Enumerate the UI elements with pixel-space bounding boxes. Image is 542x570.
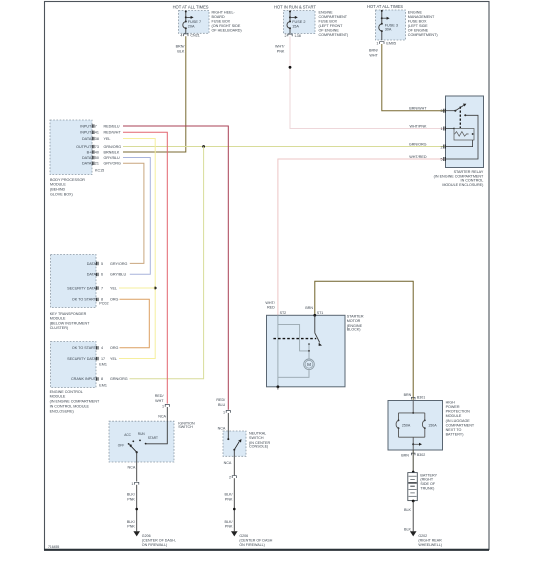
svg-text:WHEELWELL): WHEELWELL): [418, 543, 442, 547]
svg-text:INPUT: INPUT: [80, 125, 92, 129]
svg-text:250A: 250A: [402, 423, 411, 427]
wire GRN/ORG branch to ECM crank input pin 8: [130, 147, 204, 379]
BPM pin 41 INPUT: [80, 131, 121, 135]
svg-text:WHT/PNK: WHT/PNK: [409, 124, 427, 128]
svg-text:COMPARTMENT): COMPARTMENT): [319, 33, 349, 37]
fuse F2 15A: [287, 11, 305, 34]
svg-text:RED: RED: [267, 306, 275, 310]
svg-text:1: 1: [441, 127, 443, 131]
wire WHT/PNK from F2 to relay pin 1: [275, 36, 446, 128]
svg-text:BRN: BRN: [404, 393, 412, 397]
svg-text:WHT/: WHT/: [275, 45, 285, 49]
svg-text:HOT AT ALL TIMES: HOT AT ALL TIMES: [173, 4, 209, 9]
wire BLK from battery to G202: [404, 501, 413, 531]
svg-text:30A: 30A: [385, 27, 392, 31]
svg-text:B302: B302: [417, 453, 425, 457]
wire RED/WHT from BPM pin 41 to ignition switch: [123, 132, 167, 403]
svg-text:73: 73: [95, 145, 99, 149]
svg-text:YEL: YEL: [110, 286, 117, 290]
neutral switch: [223, 431, 270, 456]
ignition bottom connector pin 1: [131, 482, 138, 486]
svg-text:5: 5: [101, 262, 103, 266]
wire GRY/ORG from BPM pin 21 to KT pin 5: [123, 163, 144, 263]
svg-text:GRN/ORG: GRN/ORG: [110, 377, 128, 381]
svg-text:BOARD: BOARD: [212, 15, 225, 19]
BPM pin 38 DATA: [82, 137, 110, 141]
svg-text:IN CONTROL MODULE: IN CONTROL MODULE: [50, 405, 90, 409]
motor M symbol: [304, 359, 315, 370]
svg-text:PNK: PNK: [277, 49, 285, 53]
wire YEL from BPM pin 38 to ECM pin 17: [119, 139, 155, 359]
svg-text:(IN ENGINE COMPARTMENT: (IN ENGINE COMPARTMENT: [50, 400, 100, 404]
svg-text:NCA: NCA: [218, 426, 226, 430]
key transponder module: [50, 255, 109, 331]
relay pin 2: [409, 142, 446, 149]
svg-text:WHT: WHT: [155, 399, 164, 403]
svg-text:HIGH: HIGH: [446, 400, 456, 404]
wire BLK/PNK ignition to G206: [127, 485, 137, 532]
svg-text:BLOCK): BLOCK): [347, 328, 361, 332]
neutral connector pin 1: [223, 410, 230, 414]
svg-text:INPUT: INPUT: [80, 131, 92, 135]
wire BLK/PNK neutral to G206: [225, 478, 235, 531]
svg-text:17: 17: [101, 357, 105, 361]
BPM pin 21 DATA: [82, 162, 121, 166]
svg-text:(RIGHT: (RIGHT: [420, 478, 433, 482]
svg-text:MODULE: MODULE: [50, 183, 66, 187]
relay switched output path to pin 5: [446, 114, 479, 159]
svg-text:CLUSTER): CLUSTER): [50, 326, 68, 330]
svg-text:BODY PROCESSOR: BODY PROCESSOR: [50, 178, 85, 182]
svg-text:15A: 15A: [292, 25, 299, 29]
battery negative terminal dot: [412, 500, 415, 503]
ignition switch: [109, 421, 195, 462]
motor return path: [278, 370, 309, 378]
svg-text:COMPARTMENT: COMPARTMENT: [319, 15, 348, 19]
svg-text:START: START: [148, 436, 158, 440]
wire NCA into neutral switch: [218, 413, 230, 440]
BPM pin 50 DATA: [82, 156, 120, 160]
svg-text:(LEFT SIDE: (LEFT SIDE: [408, 24, 428, 28]
engine control module: [50, 342, 107, 414]
svg-text:ON FIREWALL): ON FIREWALL): [142, 543, 167, 547]
svg-text:MODULE: MODULE: [50, 395, 66, 399]
svg-text:KC15: KC15: [95, 169, 104, 173]
wire GRN/ORG from BPM pin 73 to relay pin 2: [123, 146, 446, 148]
svg-text:POWER: POWER: [446, 405, 460, 409]
fuse F7 20A: [183, 11, 201, 34]
svg-text:ENCLOSURE): ENCLOSURE): [50, 409, 74, 413]
svg-text:GRN/ORG: GRN/ORG: [104, 145, 122, 149]
svg-text:FUSE 7: FUSE 7: [188, 20, 201, 24]
svg-text:RIGHT HEEL-: RIGHT HEEL-: [212, 11, 236, 15]
svg-text:RED/WHT: RED/WHT: [104, 131, 122, 135]
svg-text:DATA: DATA: [87, 273, 97, 277]
svg-text:PROTECTION: PROTECTION: [446, 410, 471, 414]
svg-text:(CENTER OF DASH: (CENTER OF DASH: [239, 539, 272, 543]
svg-text:38: 38: [95, 137, 99, 141]
svg-text:2: 2: [229, 476, 231, 480]
svg-text:FUSE BOX: FUSE BOX: [212, 20, 231, 24]
svg-text:YEL: YEL: [110, 357, 117, 361]
relay pin 5: [409, 155, 445, 162]
svg-text:GRY/BLU: GRY/BLU: [104, 156, 120, 160]
svg-text:PNK: PNK: [127, 497, 135, 501]
svg-text:M: M: [307, 362, 311, 367]
svg-text:CONSOLE): CONSOLE): [249, 445, 268, 449]
splice on WHT/PNK: [289, 66, 292, 69]
KT pin 6 DATA: [87, 273, 127, 277]
svg-text:FUSE BOX: FUSE BOX: [319, 20, 338, 24]
svg-text:OF HEELBOARD): OF HEELBOARD): [212, 29, 242, 33]
svg-text:G206: G206: [239, 534, 248, 538]
HPP internal output join: [399, 437, 425, 450]
svg-text:MODULE ENCLOSURE): MODULE ENCLOSURE): [442, 183, 483, 187]
svg-text:21: 21: [95, 162, 99, 166]
wire WHT/RED from relay pin 5 to starter ST2: [265, 159, 445, 315]
svg-text:HOT AT ALL TIMES: HOT AT ALL TIMES: [367, 4, 403, 9]
svg-text:TRUNK): TRUNK): [420, 487, 434, 491]
svg-text:MOTOR: MOTOR: [347, 319, 361, 323]
svg-text:BLU: BLU: [218, 403, 226, 407]
svg-text:BLK/: BLK/: [225, 520, 234, 524]
svg-text:2: 2: [285, 34, 287, 38]
svg-text:G202: G202: [418, 534, 427, 538]
neutral bottom connector pin 2: [229, 476, 236, 480]
svg-text:BLK: BLK: [177, 49, 185, 53]
svg-text:4: 4: [180, 34, 182, 38]
svg-text:8: 8: [101, 298, 103, 302]
svg-text:1: 1: [162, 404, 164, 408]
KT pin 7 SECURITY DATA: [67, 286, 117, 290]
svg-text:GRY/ORG: GRY/ORG: [104, 162, 121, 166]
starter motor winding connection: [308, 343, 310, 359]
svg-text:KEY TRANSPONDER: KEY TRANSPONDER: [50, 312, 87, 316]
svg-text:BRN/WHT: BRN/WHT: [409, 107, 427, 111]
svg-text:SIDE OF: SIDE OF: [420, 482, 435, 486]
svg-text:SECURITY DATA: SECURITY DATA: [67, 357, 96, 361]
svg-text:FUSE BOX: FUSE BOX: [408, 19, 427, 23]
ECM pin 8 CRANK INPUT: [71, 377, 128, 381]
connector L38 pin 2: [285, 34, 301, 38]
junction dot GRN/ORG branch: [202, 145, 205, 148]
svg-text:CRANK INPUT: CRANK INPUT: [71, 377, 97, 381]
svg-text:CN21: CN21: [190, 34, 199, 38]
svg-text:DATA: DATA: [87, 262, 97, 266]
battery positive terminal dot: [412, 471, 415, 474]
starter switch contact: [315, 315, 322, 346]
starter motor: [267, 311, 364, 387]
BPM pin 40 B+: [87, 150, 120, 154]
svg-text:PNK: PNK: [225, 525, 233, 529]
svg-text:MODULE: MODULE: [50, 317, 66, 321]
relay pin 1: [409, 124, 445, 131]
svg-text:YEL: YEL: [104, 137, 111, 141]
svg-text:OK TO START: OK TO START: [72, 346, 97, 350]
svg-text:RUN: RUN: [138, 432, 146, 436]
svg-text:BRN: BRN: [305, 306, 313, 310]
svg-text:BATTERY: BATTERY: [420, 473, 437, 477]
relay coil return to pin 2: [446, 140, 473, 147]
svg-text:(LEFT FRONT: (LEFT FRONT: [319, 24, 344, 28]
relay armature dashed link: [459, 107, 461, 129]
wire BRN/BLK from F7 to BPM pin 40: [123, 36, 186, 152]
high power protection module top connector B301: [404, 393, 426, 399]
svg-text:COMPARTMENT): COMPARTMENT): [408, 33, 438, 37]
splice on neutral BLK/PNK: [233, 508, 236, 511]
ignition connector pin 1: [162, 404, 169, 408]
wire YEL branch to KT pin 7: [119, 287, 155, 289]
wire NCA into ignition switch: [146, 407, 168, 444]
svg-text:FUSE 2: FUSE 2: [292, 20, 305, 24]
svg-text:DATA: DATA: [82, 162, 92, 166]
svg-text:OFF: OFF: [118, 444, 124, 448]
svg-text:OUTPUT: OUTPUT: [76, 145, 92, 149]
fuse F3 30A: [379, 10, 398, 40]
svg-text:7: 7: [95, 125, 97, 129]
ignition switch feed label RED/WHT: [155, 394, 165, 403]
svg-text:BLK/: BLK/: [127, 493, 136, 497]
svg-text:GRN/ORG: GRN/ORG: [409, 142, 427, 146]
svg-text:ORG: ORG: [110, 346, 119, 350]
svg-text:1: 1: [223, 410, 225, 414]
svg-text:7: 7: [101, 286, 103, 290]
svg-text:PC02: PC02: [99, 302, 108, 306]
ignition rotor arm: [129, 444, 138, 453]
svg-text:BRN: BRN: [401, 453, 409, 457]
KT pin 5 DATA: [87, 262, 128, 266]
ground G206 (neutral): [231, 531, 273, 547]
svg-text:2: 2: [441, 145, 443, 149]
svg-text:BLK/: BLK/: [127, 520, 136, 524]
high power protection module: [388, 400, 475, 450]
svg-text:BATTERY): BATTERY): [446, 433, 464, 437]
wire GRY/BLU from BPM pin 50 to KT pin 6: [123, 158, 150, 275]
svg-text:BRN/: BRN/: [176, 45, 186, 49]
wire from neutral switch to ground: [224, 450, 235, 476]
svg-text:8: 8: [101, 377, 103, 381]
fuse 250A: [396, 413, 411, 437]
svg-text:EM1: EM1: [99, 362, 107, 366]
ignition contacts: [118, 432, 158, 447]
svg-text:1: 1: [131, 482, 133, 486]
svg-text:OF ENGINE: OF ENGINE: [408, 28, 429, 32]
BPM pin 7 INPUT: [80, 124, 120, 128]
svg-text:GRY/ORG: GRY/ORG: [110, 262, 127, 266]
svg-text:ENGINE: ENGINE: [408, 10, 423, 14]
svg-text:ST2: ST2: [280, 311, 287, 315]
ground G202: [410, 531, 442, 547]
svg-text:ORG: ORG: [110, 298, 119, 302]
svg-text:DATA: DATA: [82, 156, 92, 160]
starter relay: [434, 96, 484, 187]
fuse box F3 (engine management fuse box): [367, 4, 438, 40]
starter ST1 junction dot: [313, 314, 316, 317]
wire BRN/WHT from F3 to relay pin 3: [369, 44, 446, 111]
connector EM05 pin 1: [376, 41, 396, 45]
svg-text:1: 1: [376, 41, 378, 45]
svg-text:GRY/BLU: GRY/BLU: [110, 273, 126, 277]
neutral switch arm: [233, 439, 241, 451]
svg-text:NCA: NCA: [224, 461, 232, 465]
svg-text:B+: B+: [87, 150, 92, 154]
svg-text:NCA: NCA: [128, 465, 136, 469]
svg-text:6: 6: [101, 273, 103, 277]
svg-text:B301: B301: [417, 396, 425, 400]
BPM pin 73 OUTPUT: [76, 145, 121, 149]
svg-text:RED/: RED/: [155, 394, 165, 398]
svg-text:EM1: EM1: [99, 384, 107, 388]
relay pin 3: [409, 107, 445, 114]
fuse box F7 (right heelboard fuse box): [173, 4, 242, 33]
wire BRN from starter ST1 to high power protection module: [305, 281, 413, 400]
svg-text:PNK: PNK: [127, 525, 135, 529]
neutral switch feed label RED/BLU: [216, 398, 226, 407]
relay coil: [446, 128, 475, 140]
ground G206 (ignition): [133, 531, 175, 547]
svg-text:MODULE: MODULE: [446, 414, 462, 418]
svg-text:NCA: NCA: [158, 415, 166, 419]
svg-text:3: 3: [441, 109, 443, 113]
svg-text:COMPARTMENT: COMPARTMENT: [446, 423, 475, 427]
svg-text:BLK: BLK: [404, 527, 412, 531]
ECM pin 17 SECURITY DATA: [67, 357, 117, 361]
battery: [408, 473, 438, 501]
svg-text:5: 5: [441, 158, 443, 162]
svg-text:ENGINE: ENGINE: [319, 11, 334, 15]
svg-text:ST1: ST1: [317, 311, 324, 315]
svg-text:BRN/BLK: BRN/BLK: [104, 150, 120, 154]
border frame: [44, 2, 489, 550]
svg-text:WHT/RED: WHT/RED: [409, 155, 427, 159]
svg-text:ENGINE CONTROL: ENGINE CONTROL: [50, 390, 83, 394]
svg-text:DATA: DATA: [82, 137, 92, 141]
svg-text:ON FIREWALL): ON FIREWALL): [239, 543, 264, 547]
svg-text:20A: 20A: [188, 25, 195, 29]
svg-text:SECURITY DATA: SECURITY DATA: [67, 286, 96, 290]
svg-text:ACC: ACC: [124, 433, 131, 437]
svg-text:RED/: RED/: [216, 398, 226, 402]
svg-text:OF ENGINE: OF ENGINE: [319, 29, 340, 33]
svg-text:40: 40: [95, 150, 99, 154]
connector CN21 pin 4: [180, 34, 200, 38]
starter solenoid feed path: [278, 315, 309, 387]
svg-text:L38: L38: [295, 34, 301, 38]
svg-text:NEXT TO: NEXT TO: [446, 428, 462, 432]
svg-text:(CENTER OF DASH,: (CENTER OF DASH,: [142, 539, 176, 543]
svg-text:PNK: PNK: [225, 497, 233, 501]
svg-text:HOT IN RUN & START: HOT IN RUN & START: [274, 4, 316, 9]
starter solenoid dashed link: [273, 338, 316, 340]
svg-text:BRN/: BRN/: [369, 49, 379, 53]
relay switch contact: [446, 104, 467, 112]
svg-text:(BEHIND: (BEHIND: [50, 188, 65, 192]
svg-text:41: 41: [95, 131, 99, 135]
svg-text:50: 50: [95, 156, 99, 160]
svg-text:MANAGEMENT: MANAGEMENT: [408, 15, 435, 19]
svg-text:(RIGHT REAR: (RIGHT REAR: [418, 539, 442, 543]
wire ORG from KT pin 8 to ECM pin 4: [120, 299, 150, 347]
wire RED/BLU from BPM pin 7 to neutral switch: [123, 126, 228, 410]
wire from ignition switch to ground: [128, 452, 137, 481]
svg-text:SWITCH: SWITCH: [249, 436, 264, 440]
svg-text:(IN LUGGAGE: (IN LUGGAGE: [446, 419, 471, 423]
HPP internal feed split: [399, 401, 425, 414]
svg-text:WHT/: WHT/: [265, 301, 275, 305]
body processor module: [50, 120, 104, 196]
svg-text:GLOVE BOX): GLOVE BOX): [50, 192, 73, 196]
svg-text:OK TO START: OK TO START: [72, 298, 97, 302]
svg-text:150A: 150A: [428, 423, 437, 427]
svg-text:(ON RIGHT SIDE: (ON RIGHT SIDE: [212, 24, 241, 28]
svg-text:SWITCH: SWITCH: [178, 425, 193, 429]
ECM pin 4 OK TO START: [72, 346, 119, 350]
svg-text:G206: G206: [142, 534, 151, 538]
fuse box F2 (engine compartment fuse box): [274, 4, 348, 37]
svg-text:4: 4: [101, 346, 103, 350]
KT pin 8 OK TO START: [72, 298, 119, 302]
splice on ignition BLK/PNK: [135, 508, 138, 511]
svg-text:EM05: EM05: [386, 41, 396, 45]
splice dot YEL at key transponder branch: [154, 287, 157, 290]
svg-text:BLK: BLK: [404, 508, 412, 512]
starter ground terminal dot: [277, 385, 280, 389]
svg-text:716455: 716455: [48, 545, 59, 549]
svg-text:WHT: WHT: [369, 54, 378, 58]
svg-text:BLK/: BLK/: [225, 493, 234, 497]
wire BRN from HPP to battery: [412, 450, 414, 472]
fuse 150A: [422, 413, 437, 437]
HPP bottom connector B302: [401, 453, 425, 457]
svg-text:RED/BLU: RED/BLU: [104, 125, 120, 129]
